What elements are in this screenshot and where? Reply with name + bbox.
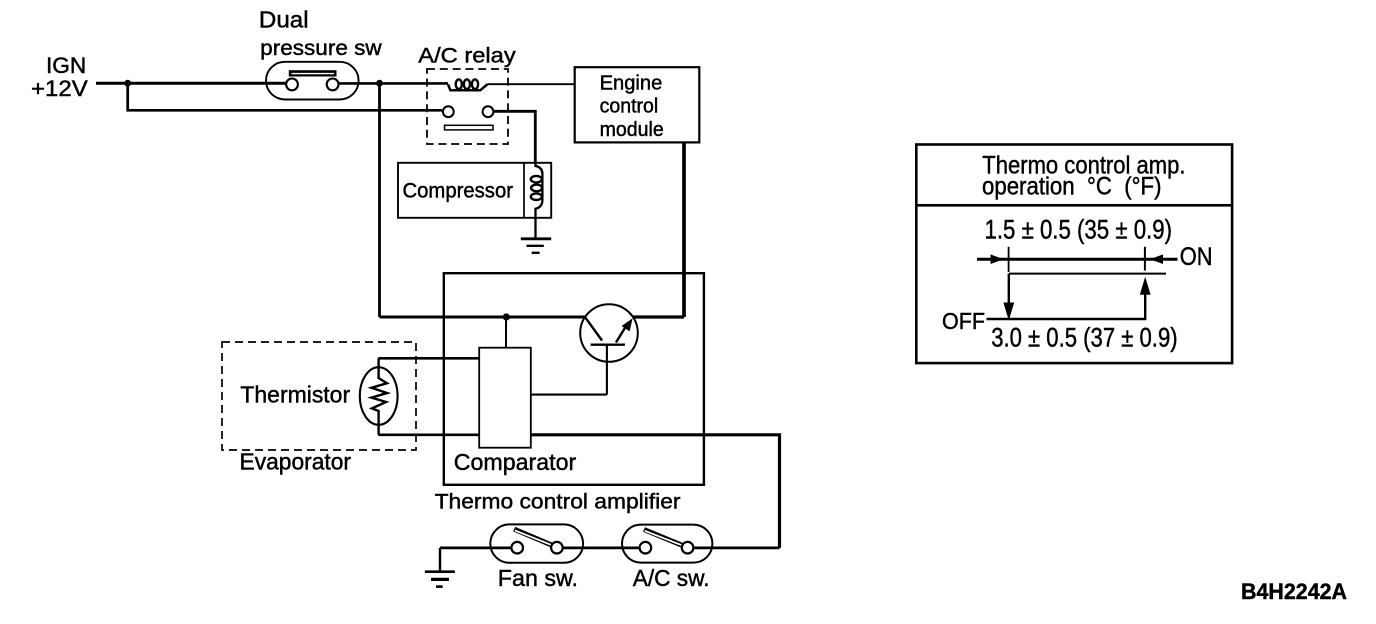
svg-text:1.5 ± 0.5 (35 ± 0.9): 1.5 ± 0.5 (35 ± 0.9) <box>985 215 1173 245</box>
svg-text:control: control <box>600 96 659 118</box>
svg-text:3.0 ± 0.5 (37 ± 0.9): 3.0 ± 0.5 (37 ± 0.9) <box>991 323 1177 353</box>
svg-text:A/C sw.: A/C sw. <box>633 565 710 591</box>
svg-text:OFF: OFF <box>942 308 985 334</box>
svg-text:Thermo control amplifier: Thermo control amplifier <box>435 490 681 514</box>
svg-text:+12V: +12V <box>31 76 88 101</box>
svg-text:Comparator: Comparator <box>454 449 577 475</box>
svg-text:Fan sw.: Fan sw. <box>498 565 578 591</box>
svg-text:B4H2242A: B4H2242A <box>1241 579 1347 604</box>
svg-text:pressure sw: pressure sw <box>260 36 382 60</box>
svg-text:Dual: Dual <box>259 7 309 33</box>
svg-text:ON: ON <box>1180 243 1213 271</box>
svg-text:IGN: IGN <box>46 53 86 78</box>
svg-text:Compressor: Compressor <box>403 179 514 203</box>
svg-text:Engine: Engine <box>600 73 663 95</box>
svg-text:operation °C (°F): operation °C (°F) <box>982 172 1162 200</box>
svg-text:Thermistor: Thermistor <box>240 382 350 408</box>
svg-text:module: module <box>600 119 664 141</box>
svg-text:A/C relay: A/C relay <box>418 43 516 67</box>
svg-text:Evaporator: Evaporator <box>240 449 352 475</box>
